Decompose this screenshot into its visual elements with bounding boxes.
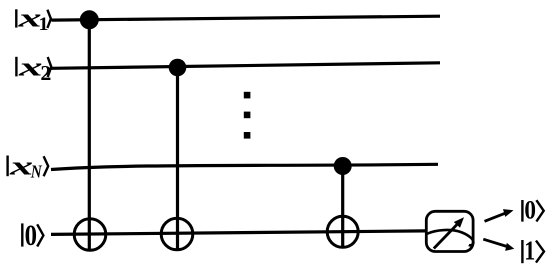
- arrow to outcome |0>: [485, 209, 514, 221]
- svg-text:0: 0: [25, 219, 37, 252]
- vertical ellipsis dots between qubit 2 and qubit N: [244, 92, 251, 139]
- vertical wire control 2 to target 2: [176, 67, 179, 251]
- meter needle arrowhead: [454, 217, 464, 228]
- vertical wire control 1 to target 1: [88, 20, 91, 252]
- ket label |0> outcome: [522, 196, 543, 225]
- wire qubit 2: [52, 63, 441, 69]
- measurement meter box: [426, 211, 473, 251]
- meter gauge arc: [427, 230, 474, 245]
- ket label |xN> on qubit line N: [8, 151, 49, 181]
- svg-text:1: 1: [524, 235, 535, 265]
- svg-text:x: x: [17, 52, 42, 81]
- control dot on qubit 2: [169, 59, 187, 77]
- ket label |1> outcome: [522, 235, 544, 265]
- svg-text:x: x: [8, 151, 33, 180]
- arrow to outcome |1>: [483, 239, 514, 251]
- control dot on qubit 1: [80, 10, 99, 29]
- control dot on qubit N: [334, 157, 352, 175]
- wire qubit 1: [52, 16, 441, 20]
- svg-text:N: N: [30, 162, 43, 182]
- CNOT target on ancilla, column N: [327, 216, 358, 247]
- ket label |x1> on qubit line 1: [16, 3, 51, 35]
- CNOT target on ancilla, column 1: [74, 219, 106, 251]
- wire qubit N: [51, 164, 438, 169]
- ket label |x2> on qubit line 2: [16, 52, 51, 85]
- CNOT target on ancilla, column 2: [161, 218, 193, 250]
- ket label |0> on ancilla line: [22, 219, 43, 252]
- wire ancilla: [51, 231, 425, 235]
- svg-text:0: 0: [524, 196, 536, 225]
- meter needle: [434, 225, 457, 249]
- svg-text:1: 1: [39, 14, 49, 35]
- vertical wire control N to target N: [341, 166, 344, 248]
